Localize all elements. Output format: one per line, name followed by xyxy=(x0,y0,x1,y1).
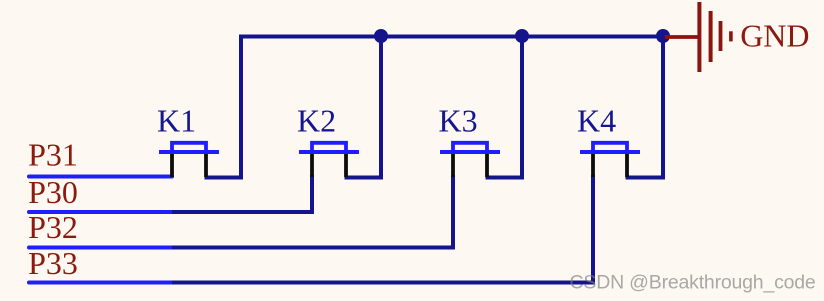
svg-text:P30: P30 xyxy=(28,174,78,210)
pushbutton K2 xyxy=(299,143,359,177)
wire: net P31 (blue segment to K1 left pin) xyxy=(29,175,172,179)
junction dot at K4/GND branch xyxy=(656,29,670,43)
svg-text:P33: P33 xyxy=(28,245,78,281)
svg-text:CSDN @Breakthrough_code: CSDN @Breakthrough_code xyxy=(570,272,816,294)
wire: net P30 navy segment to K2 left pin xyxy=(172,175,312,212)
wire: top GND bus xyxy=(239,35,665,39)
wire: K3 branch (right pin to top bus) xyxy=(486,35,523,178)
svg-text:P32: P32 xyxy=(28,209,78,245)
svg-text:K3: K3 xyxy=(439,103,478,139)
power port GND xyxy=(665,2,731,72)
pushbutton K3 xyxy=(440,143,500,177)
wire: net P32 blue segment xyxy=(29,246,172,250)
pushbutton K1 xyxy=(159,143,219,177)
wire: K2 branch (right pin to top bus) xyxy=(345,35,382,178)
svg-text:GND: GND xyxy=(740,18,809,54)
wire: net P30 blue segment xyxy=(29,210,172,214)
svg-text:K4: K4 xyxy=(577,103,616,139)
svg-text:K2: K2 xyxy=(297,103,336,139)
wire: K4 branch (right pin to top bus) xyxy=(626,35,664,178)
junction dot at K2 branch xyxy=(374,29,388,43)
wire: K1 branch (right pin to top bus) xyxy=(205,35,242,178)
pushbutton K4 xyxy=(580,143,640,177)
wire: net P33 blue segment xyxy=(29,281,172,285)
junction dot at K3 branch xyxy=(515,29,529,43)
wire: net P32 navy segment to K3 left pin xyxy=(172,175,453,248)
svg-text:P31: P31 xyxy=(28,137,78,173)
svg-text:K1: K1 xyxy=(157,103,196,139)
wire: net P33 navy segment to K4 left pin xyxy=(172,175,593,283)
